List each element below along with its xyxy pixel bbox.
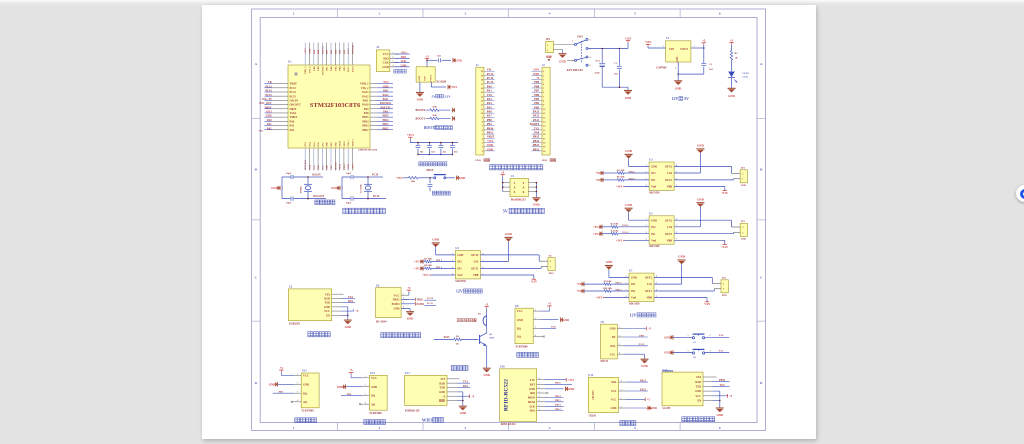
- svg-text:DQ: DQ: [371, 395, 375, 398]
- svg-text:HX711: HX711: [601, 360, 609, 363]
- svg-text:GND: GND: [324, 306, 330, 309]
- svg-text:PB6 2: PB6 2: [629, 170, 636, 173]
- svg-text:+3V3: +3V3: [616, 186, 623, 189]
- U1 right net labels and wires: [378, 83, 394, 85]
- svg-text:R1: R1: [456, 335, 460, 338]
- XC6206 ground pin to ground: [419, 82, 421, 92]
- diode LED1: [731, 60, 733, 71]
- svg-text:22uF: 22uF: [595, 72, 601, 75]
- svg-text:6: 6: [539, 387, 540, 389]
- svg-text:GND: GND: [675, 87, 681, 91]
- module U15 OLED body: [588, 377, 618, 412]
- svg-text:+5: +5: [548, 303, 552, 306]
- svg-text:DT: DT: [612, 336, 616, 339]
- svg-text:+5: +5: [485, 303, 489, 306]
- svg-text:SDA: SDA: [530, 410, 535, 413]
- svg-text:C2: C2: [709, 63, 713, 66]
- svg-text:U12: U12: [370, 372, 375, 375]
- svg-text:BOOT1: BOOT1: [321, 45, 324, 54]
- capacitor 104 reset: [429, 178, 431, 184]
- svg-text:+3V3: +3V3: [450, 85, 457, 89]
- svg-text:PA1: PA1: [487, 90, 493, 93]
- svg-text:PC13: PC13: [290, 87, 297, 90]
- gray canvas top gradient: [0, 0, 1024, 5]
- svg-text:Pin HDR2X3: Pin HDR2X3: [511, 199, 527, 202]
- filter cap power rail: [409, 139, 411, 143]
- svg-text:VCC: VCC: [371, 377, 377, 380]
- svg-text:GND: GND: [371, 386, 377, 389]
- svg-text:OLED: OLED: [591, 390, 595, 400]
- label fuwei dianlu (reset circuit): [432, 191, 436, 195]
- svg-text:PA11: PA11: [383, 98, 389, 101]
- svg-text:PA8: PA8: [534, 131, 540, 134]
- svg-text:OUT1: OUT1: [665, 179, 673, 182]
- svg-text:PA15: PA15: [444, 336, 451, 339]
- svg-text:1: 1: [688, 335, 689, 337]
- svg-text:4: 4: [297, 400, 298, 402]
- module U12 IR tracking mid: [369, 375, 387, 410]
- svg-text:VSS_2: VSS_2: [361, 87, 369, 90]
- svg-text:GND: GND: [697, 144, 705, 148]
- svg-text:4: 4: [590, 57, 592, 59]
- XC6206 VOUT wire to +3V3: [430, 82, 432, 87]
- svg-text:GND: GND: [439, 391, 445, 394]
- svg-text:SCK: SCK: [529, 405, 535, 408]
- label xiazaikou (download port): [394, 69, 398, 73]
- svg-text:7: 7: [539, 383, 540, 385]
- connector J3 HDR2X3 body: [510, 178, 528, 196]
- U15 VCC to +5: [626, 398, 645, 400]
- svg-text:B1: B1: [478, 312, 482, 315]
- svg-text:2: 2: [482, 147, 483, 149]
- svg-text:PB12: PB12: [362, 129, 369, 132]
- module U6 ultrasonic body: [376, 288, 402, 318]
- filter caps bottom rail: [418, 153, 452, 155]
- reset wire and push button S3: [418, 177, 433, 179]
- svg-text:4: 4: [365, 403, 366, 405]
- svg-text:JP2: JP2: [741, 167, 746, 170]
- svg-text:VOUT: VOUT: [429, 75, 432, 83]
- bluetooth STA stub: [342, 293, 344, 295]
- svg-text:VSSA: VSSA: [290, 112, 297, 115]
- svg-text:VCC: VCC: [394, 294, 400, 297]
- svg-text:PB12: PB12: [533, 148, 540, 151]
- svg-text:OSCIN: OSCIN: [312, 174, 321, 177]
- svg-text:1K: 1K: [456, 343, 459, 346]
- svg-text:PB11: PB11: [343, 140, 346, 146]
- svg-text:STM32F103C8T6: STM32F103C8T6: [358, 149, 378, 152]
- svg-text:PA1 3: PA1 3: [623, 231, 630, 234]
- svg-text:IRQ: IRQ: [530, 392, 535, 395]
- svg-text:GND: GND: [678, 255, 686, 259]
- svg-text:+5: +5: [350, 369, 354, 372]
- svg-text:OUT1: OUT1: [471, 268, 479, 271]
- svg-text:+5: +5: [471, 395, 474, 398]
- svg-text:GND: GND: [646, 407, 652, 410]
- svg-text:2: 2: [535, 318, 536, 320]
- svg-text:GND: GND: [337, 385, 343, 389]
- svg-text:3: 3: [694, 46, 695, 48]
- svg-text:GND: GND: [271, 186, 277, 190]
- svg-text:Vref: Vref: [631, 297, 636, 300]
- svg-text:OUT2: OUT2: [471, 254, 479, 257]
- svg-text:+3V3: +3V3: [616, 239, 623, 242]
- svg-text:+5: +5: [729, 395, 732, 398]
- svg-text:ECB02D1: ECB02D1: [289, 323, 301, 326]
- svg-text:+3V3: +3V3: [396, 176, 403, 180]
- svg-text:6: 6: [590, 65, 592, 67]
- svg-text:1: 1: [393, 52, 394, 54]
- svg-text:SDC9150: SDC9150: [649, 245, 660, 248]
- svg-text:104: 104: [443, 152, 447, 154]
- svg-text:GND: GND: [401, 64, 407, 67]
- svg-text:GND: GND: [664, 335, 670, 339]
- svg-text:IN2: IN2: [651, 172, 656, 175]
- svg-text:12V: 12V: [456, 289, 463, 294]
- svg-text:STM32F103C8T6: STM32F103C8T6: [310, 102, 361, 109]
- svg-text:GND: GND: [641, 364, 647, 368]
- svg-text:2: 2: [365, 385, 366, 387]
- svg-text:PB4: PB4: [339, 49, 342, 54]
- svg-text:GND: GND: [460, 411, 466, 415]
- svg-text:NRST: NRST: [426, 169, 434, 172]
- svg-text:30pF: 30pF: [346, 172, 352, 175]
- svg-text:5V: 5V: [503, 209, 508, 214]
- svg-text:BOOT1: BOOT1: [334, 161, 337, 170]
- svg-text:GND: GND: [533, 73, 539, 76]
- svg-text:+12V: +12V: [530, 280, 538, 284]
- svg-text:GND: GND: [394, 308, 400, 311]
- LM7805 ground rail: [678, 73, 704, 75]
- svg-text:U13: U13: [405, 372, 410, 375]
- label fengmingqi (buzzer): [451, 366, 456, 371]
- svg-text:3: 3: [464, 12, 466, 16]
- svg-text:GND: GND: [568, 387, 574, 391]
- svg-text:12V: 12V: [630, 312, 637, 317]
- svg-text:DIO: DIO: [401, 56, 406, 59]
- svg-text:CLK: CLK: [401, 60, 408, 63]
- svg-text:5: 5: [634, 12, 636, 16]
- svg-text:2: 2: [379, 426, 381, 430]
- label hongwai xunji U11: [295, 418, 300, 423]
- svg-text:4: 4: [549, 426, 551, 430]
- svg-text:3: 3: [297, 392, 298, 394]
- svg-text:EN: EN: [326, 314, 330, 317]
- U14 VCC to +5: [713, 395, 728, 397]
- wire +5 to VIN: [426, 60, 428, 67]
- svg-text:GND: GND: [611, 407, 617, 410]
- svg-text:PB12: PB12: [383, 127, 390, 130]
- svg-text:1K: 1K: [735, 56, 738, 59]
- svg-text:Y1: Y1: [666, 37, 670, 40]
- svg-text:IN1: IN1: [651, 233, 656, 236]
- capacitor C1 104: [618, 49, 620, 66]
- svg-text:+12V: +12V: [721, 245, 729, 249]
- svg-text:4: 4: [621, 380, 622, 382]
- svg-text:XH2: XH2: [741, 184, 747, 187]
- svg-text:SDC9150: SDC9150: [629, 303, 640, 306]
- svg-text:3: 3: [393, 61, 394, 63]
- svg-text:11: 11: [543, 113, 545, 115]
- svg-text:1: 1: [539, 409, 540, 411]
- svg-text:+12V: +12V: [624, 36, 632, 40]
- svg-text:BOOT0: BOOT0: [416, 109, 426, 112]
- svg-text:PC14: PC14: [290, 91, 297, 94]
- svg-text:JP1: JP1: [546, 38, 551, 41]
- svg-text:STA: STA: [696, 376, 701, 379]
- svg-text:+3V3: +3V3: [383, 81, 390, 84]
- svg-text:GND: GND: [483, 373, 489, 377]
- svg-text:1: 1: [297, 374, 298, 376]
- capacitor C2 104 at output: [703, 48, 705, 63]
- svg-text:PB7 3: PB7 3: [629, 177, 636, 180]
- svg-text:30pF: 30pF: [286, 201, 292, 204]
- svg-text:PB1: PB1: [487, 123, 493, 126]
- svg-text:+3V3: +3V3: [533, 69, 540, 72]
- svg-text:U2: U2: [289, 286, 293, 289]
- label hongwai xunji U12: [364, 420, 369, 425]
- ultrasonic VCC to +5: [408, 292, 410, 295]
- module U13 WIFI body: [405, 375, 448, 405]
- svg-text:1: 1: [403, 294, 404, 296]
- svg-text:GND: GND: [631, 277, 637, 280]
- svg-text:DQ: DQ: [517, 327, 521, 330]
- U9 DT net PB9: [624, 336, 648, 338]
- svg-text:MOSI: MOSI: [528, 401, 535, 404]
- svg-text:PA14: PA14: [352, 66, 355, 72]
- wire +12V to VIN: [647, 46, 649, 48]
- svg-text:OUT1: OUT1: [645, 290, 653, 293]
- svg-text:GND: GND: [345, 325, 351, 329]
- svg-text:TX2: TX2: [487, 94, 493, 97]
- svg-text:PB9: PB9: [639, 334, 644, 337]
- svg-text:XH2: XH2: [549, 272, 555, 275]
- svg-text:4: 4: [393, 65, 394, 67]
- U9 SCK net PC13: [624, 345, 648, 347]
- svg-text:DIO: DIO: [383, 90, 388, 93]
- svg-text:LSS: LSS: [667, 226, 672, 229]
- svg-text:R3 10K: R3 10K: [611, 223, 619, 226]
- svg-text:R8 10K: R8 10K: [424, 264, 432, 267]
- svg-text:PB0 2: PB0 2: [436, 259, 443, 262]
- svg-text:OSCOUT: OSCOUT: [290, 104, 302, 107]
- U13 GND and link pin to ground: [458, 391, 463, 393]
- JP1 pin wires: [553, 44, 575, 46]
- svg-text:ESP8266-12F: ESP8266-12F: [405, 410, 420, 413]
- svg-text:4: 4: [535, 335, 536, 337]
- svg-text:SWCLK: SWCLK: [352, 45, 355, 54]
- svg-text:PB1: PB1: [330, 164, 333, 169]
- svg-text:PA5: PA5: [313, 164, 316, 169]
- svg-text:Vref: Vref: [651, 186, 656, 189]
- svg-text:VCC: VCC: [610, 353, 616, 356]
- svg-text:PA15: PA15: [347, 66, 350, 72]
- svg-text:PB3: PB3: [279, 391, 284, 394]
- resistor R2 1K: [731, 44, 733, 50]
- svg-text:2: 2: [621, 398, 622, 400]
- svg-text:PB0: PB0: [326, 164, 329, 169]
- svg-text:30pF: 30pF: [286, 172, 292, 175]
- svg-text:+5: +5: [730, 38, 734, 42]
- svg-text:TXD: TXD: [324, 302, 330, 305]
- svg-text:IN1: IN1: [457, 268, 462, 271]
- svg-text:GND: GND: [610, 328, 616, 331]
- svg-text:6: 6: [719, 12, 721, 16]
- svg-text:+3V3: +3V3: [352, 163, 355, 169]
- svg-text:5: 5: [572, 60, 574, 62]
- svg-text:PA5: PA5: [719, 350, 724, 353]
- svg-text:OUT2: OUT2: [665, 166, 673, 169]
- svg-text:VOUT: VOUT: [680, 48, 688, 51]
- svg-text:R6 10K: R6 10K: [617, 176, 625, 179]
- svg-text:PB8: PB8: [317, 49, 320, 54]
- svg-text:PB11: PB11: [343, 163, 346, 169]
- svg-text:PB8: PB8: [534, 85, 540, 88]
- svg-text:104: 104: [420, 152, 424, 154]
- U13 lianjie pin name glyphs: [439, 399, 441, 401]
- svg-text:PB10: PB10: [339, 163, 342, 169]
- U8 DQ net PA6: [541, 327, 557, 329]
- svg-text:PA12: PA12: [383, 94, 390, 97]
- svg-text:GND: GND: [697, 197, 705, 201]
- svg-text:104: 104: [437, 55, 441, 58]
- transistor Q1 NPN: [479, 335, 481, 344]
- svg-text:PB5: PB5: [534, 98, 540, 101]
- svg-text:J4: J4: [376, 46, 379, 49]
- svg-text:PA3: PA3: [487, 98, 493, 101]
- svg-text:PA7: PA7: [321, 164, 324, 169]
- svg-text:PB9: PB9: [534, 81, 540, 84]
- svg-text:STA: STA: [325, 293, 330, 296]
- svg-text:5: 5: [514, 190, 516, 194]
- svg-text:P4: P4: [549, 254, 553, 257]
- svg-text:R7 10K: R7 10K: [424, 257, 432, 260]
- svg-text:J1: J1: [476, 64, 479, 67]
- svg-text:VBB: VBB: [667, 239, 673, 242]
- svg-text:LSS: LSS: [667, 172, 672, 175]
- svg-text:R5 10K: R5 10K: [617, 169, 625, 172]
- svg-text:1: 1: [543, 71, 544, 73]
- svg-text:RXD: RXD: [439, 382, 445, 385]
- svg-text:C: C: [255, 275, 258, 279]
- svg-text:GND: GND: [331, 186, 337, 190]
- svg-text:VCC: VCC: [517, 310, 523, 313]
- svg-text:PA1: PA1: [290, 125, 295, 128]
- svg-text:U7: U7: [629, 270, 633, 273]
- svg-text:NRST: NRST: [290, 108, 297, 111]
- svg-text:KPT DIP-4X8: KPT DIP-4X8: [567, 69, 583, 72]
- svg-text:2: 2: [675, 68, 676, 70]
- svg-text:AQ: AQ: [303, 401, 307, 404]
- svg-text:IN1: IN1: [631, 290, 636, 293]
- label lanya mokuai (bluetooth module): [308, 332, 313, 337]
- module U2 bluetooth body: [288, 289, 331, 321]
- svg-text:4: 4: [549, 12, 551, 16]
- svg-text:+5: +5: [356, 310, 359, 313]
- svg-text:PB7 2: PB7 2: [615, 282, 622, 285]
- svg-text:GND: GND: [529, 388, 535, 391]
- svg-text:5V: 5V: [684, 96, 689, 101]
- svg-text:IN2: IN2: [457, 261, 462, 264]
- svg-text:PA9 TX1: PA9 TX1: [380, 106, 391, 109]
- module U10 RFID-RC522 body: [500, 369, 537, 422]
- svg-text:PB13: PB13: [362, 125, 369, 128]
- svg-text:GND: GND: [455, 58, 461, 62]
- svg-text:R9 10K: R9 10K: [604, 280, 612, 283]
- svg-text:OUT2: OUT2: [665, 219, 673, 222]
- svg-text:8: 8: [539, 378, 540, 380]
- module U14 voice body: [662, 372, 703, 406]
- svg-text:+5: +5: [647, 399, 650, 402]
- capacitor EC1 22uF electrolytic: [601, 49, 603, 64]
- svg-text:GND: GND: [459, 176, 465, 180]
- svg-text:OLED: OLED: [589, 415, 596, 418]
- svg-text:PC13: PC13: [487, 73, 494, 76]
- svg-text:PB6: PB6: [534, 94, 540, 97]
- svg-text:PA13: PA13: [362, 91, 369, 94]
- module U11 IR tracking left: [301, 373, 319, 408]
- svg-text:VBB: VBB: [473, 274, 479, 277]
- svg-text:GND: GND: [625, 203, 633, 207]
- svg-text:+12V: +12V: [644, 40, 652, 44]
- op-amp U1 STM32F103C8T6 MCU body: [288, 65, 370, 148]
- svg-text:VCC: VCC: [611, 399, 617, 402]
- U1 top pins: [304, 43, 306, 66]
- U14 GND EN to ground: [713, 390, 720, 392]
- svg-text:PB11: PB11: [487, 131, 494, 134]
- svg-text:GND: GND: [676, 56, 679, 62]
- svg-text:WIFI: WIFI: [422, 418, 433, 423]
- svg-text:PB13: PB13: [533, 144, 540, 147]
- white schematic page: [202, 5, 816, 439]
- download port pins and nets: [390, 53, 398, 55]
- svg-text:SDC9150: SDC9150: [455, 280, 466, 283]
- svg-text:NPN: NPN: [489, 336, 494, 339]
- svg-text:BOOT0: BOOT0: [321, 66, 324, 75]
- svg-text:+5: +5: [648, 328, 651, 331]
- wire buzzer to collector: [486, 326, 488, 333]
- connector J2 1x20 header right body: [542, 67, 550, 155]
- svg-text:PB14: PB14: [533, 140, 540, 143]
- svg-text:GND: GND: [309, 48, 312, 54]
- svg-text:C1: C1: [614, 62, 618, 65]
- svg-text:NRST: NRST: [487, 136, 495, 139]
- svg-text:+3V3: +3V3: [400, 52, 407, 55]
- svg-text:OUT1: OUT1: [665, 233, 673, 236]
- svg-text:TCRT5000: TCRT5000: [301, 410, 314, 413]
- svg-text:4: 4: [523, 186, 525, 190]
- svg-text:2: 2: [393, 57, 394, 59]
- svg-text:PA8: PA8: [364, 112, 369, 115]
- svg-text:4: 4: [539, 396, 540, 398]
- svg-text:PA6: PA6: [317, 164, 320, 169]
- ultrasonic GND: [401, 307, 410, 309]
- svg-text:10K: 10K: [411, 180, 415, 183]
- svg-text:3: 3: [365, 394, 366, 396]
- svg-text:PA9: PA9: [364, 108, 369, 111]
- connector J4 download port body: [376, 50, 390, 72]
- svg-text:XH2: XH2: [722, 294, 728, 297]
- svg-text:TXD: TXD: [440, 387, 446, 390]
- svg-text:LSS: LSS: [474, 261, 479, 264]
- svg-text:VSS_1: VSS_1: [347, 139, 350, 147]
- svg-text:GND: GND: [606, 260, 614, 264]
- svg-text:PA10 RX1: PA10 RX1: [380, 102, 392, 105]
- svg-text:U3: U3: [649, 159, 653, 162]
- svg-text:U14: U14: [662, 369, 667, 372]
- svg-text:RX2 PA3: RX2 PA3: [304, 159, 307, 169]
- svg-text:PC15: PC15: [427, 302, 434, 305]
